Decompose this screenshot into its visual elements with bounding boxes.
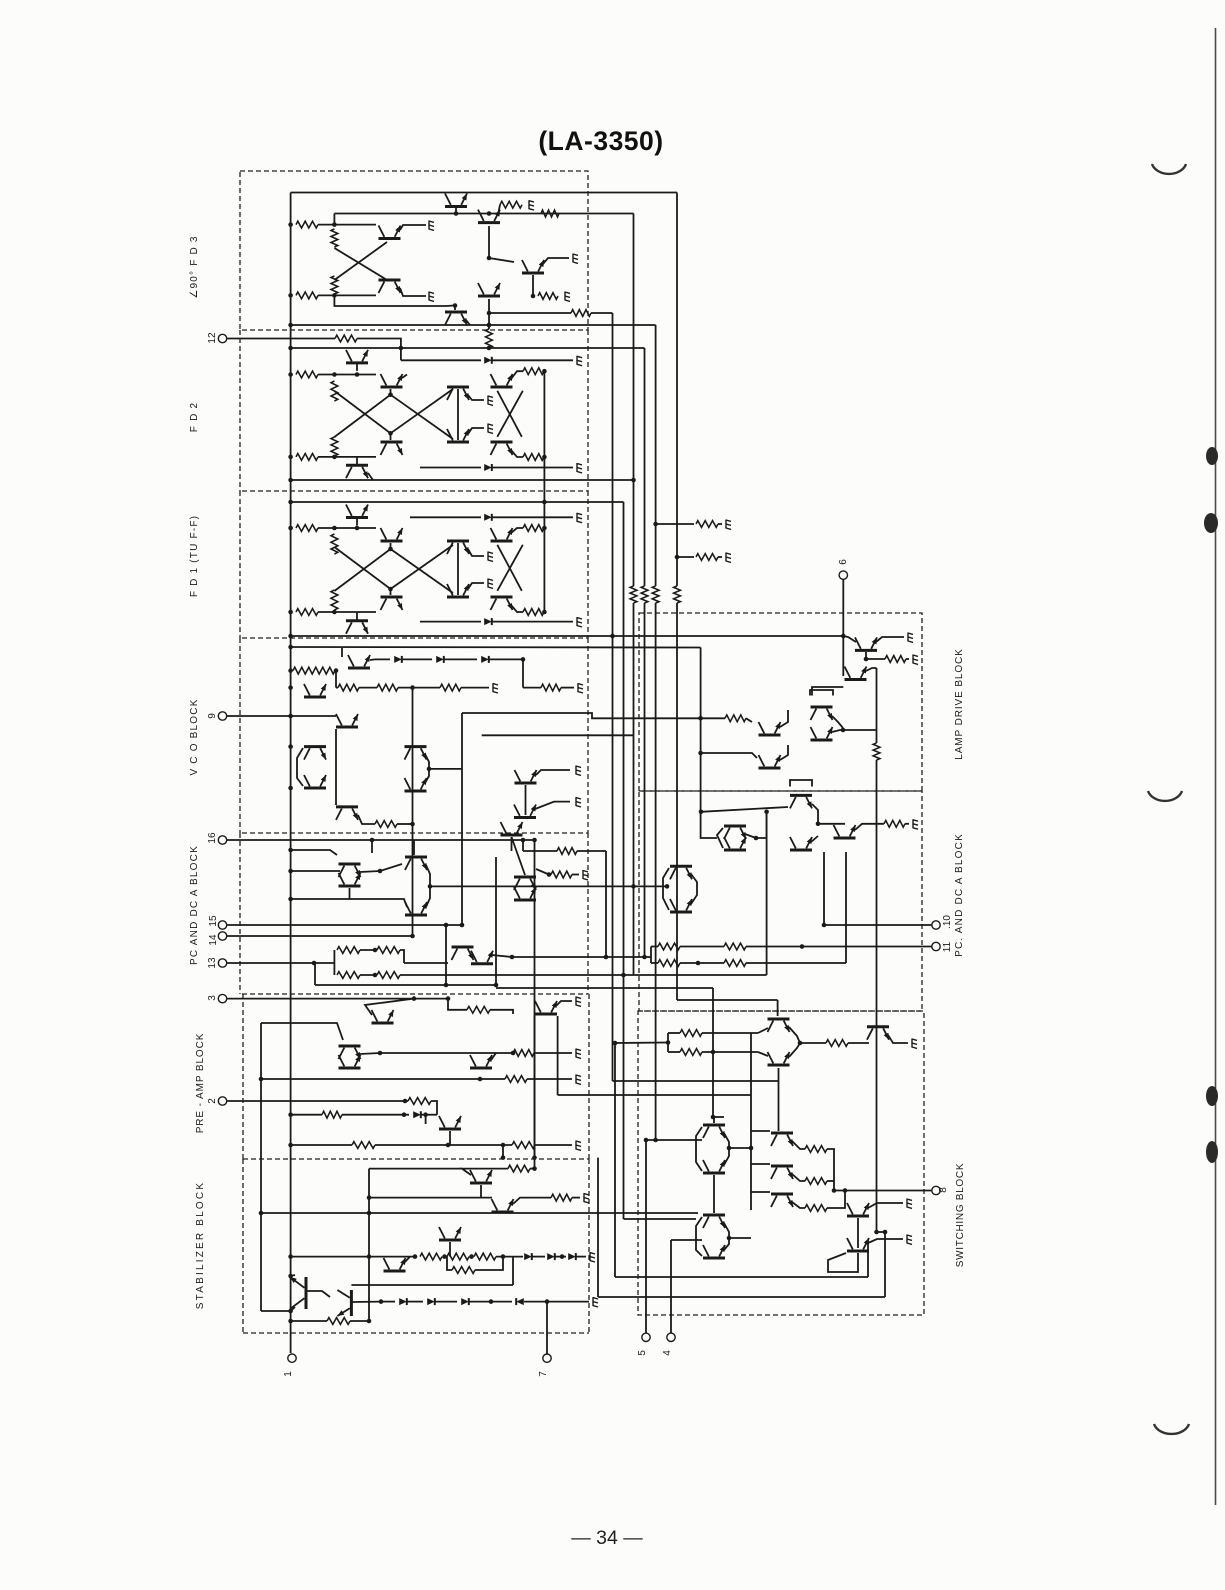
wire Q4 emitter xyxy=(466,320,470,325)
ground xyxy=(907,1235,912,1245)
wire xyxy=(291,1144,352,1146)
transistor Q36 xyxy=(339,873,361,886)
pin label 4 xyxy=(662,1350,673,1356)
junction xyxy=(644,1138,649,1143)
wire cross-couple f xyxy=(497,545,523,591)
wire xyxy=(488,325,490,329)
svg-text:12: 12 xyxy=(207,332,218,344)
junction xyxy=(444,923,449,928)
junction xyxy=(501,1143,506,1148)
wire Q72-Q73 link xyxy=(713,1175,715,1213)
block outline PC-DCA right xyxy=(587,833,589,994)
transistor Q29a xyxy=(405,747,427,760)
wire Q58 collector loop xyxy=(810,690,833,696)
resistor R13 vertical xyxy=(331,437,338,456)
transistor Q60 xyxy=(790,795,812,808)
transistor Q3 xyxy=(379,280,401,293)
wire xyxy=(877,1231,886,1233)
wire xyxy=(811,836,818,842)
wire bus V4 upper xyxy=(644,348,646,586)
resistor R47 xyxy=(474,1253,496,1260)
wire xyxy=(318,611,376,613)
resistor R16 xyxy=(523,454,544,461)
junction xyxy=(727,1236,732,1241)
wire to Q6 base xyxy=(489,258,514,262)
wire xyxy=(375,1144,512,1146)
pin 12 terminal xyxy=(218,334,226,342)
block outline STABILIZER left xyxy=(242,1159,244,1333)
junction xyxy=(545,1299,550,1304)
junction xyxy=(487,256,492,261)
label PC AND DC A BLOCK left xyxy=(189,845,200,965)
wire into Q68 base xyxy=(778,1068,780,1081)
transistor Q54 xyxy=(855,637,877,650)
wire long to right block xyxy=(400,974,767,976)
wire xyxy=(701,717,725,719)
pin 10 terminal xyxy=(932,921,940,929)
wire xyxy=(867,1240,869,1277)
junction xyxy=(446,1143,451,1148)
block outline SWITCHING xyxy=(638,1011,924,1315)
resistor R21 xyxy=(523,525,544,532)
junction xyxy=(749,1146,754,1151)
block outline PC-DCA left xyxy=(239,833,241,994)
wire V1 to switching xyxy=(613,1080,779,1082)
wire Q11 base stub xyxy=(390,389,392,395)
label V.C.O BLOCK xyxy=(189,698,200,775)
wire Q5 emitter xyxy=(498,205,500,215)
wire stub xyxy=(677,556,694,558)
resistor R56 xyxy=(658,943,680,950)
wire V6 to switching xyxy=(677,999,778,1001)
wire xyxy=(572,874,579,876)
junction xyxy=(642,955,647,960)
resistor R55 xyxy=(884,820,905,827)
pin label 7 xyxy=(538,1371,549,1377)
resistor R12 vertical xyxy=(331,381,338,401)
resistor R26 xyxy=(338,684,359,691)
transistor Q18 xyxy=(381,528,403,541)
wire diode row upper xyxy=(401,359,481,361)
block outline PC AND DC A right xyxy=(639,791,922,1011)
scan blob 3 xyxy=(1206,1086,1218,1106)
junction xyxy=(288,293,293,298)
wire xyxy=(645,956,652,958)
pin label 8 xyxy=(938,1187,949,1193)
wire rail y1079 xyxy=(261,1078,480,1080)
wire xyxy=(492,359,573,361)
wire xyxy=(535,802,570,809)
junction xyxy=(874,1230,879,1235)
wire Q19 base stub xyxy=(390,589,392,595)
wire to pin 7 xyxy=(546,1302,548,1354)
wire bus V3 mid xyxy=(633,480,635,586)
wire xyxy=(668,1051,680,1053)
resistor R3 vertical xyxy=(331,276,338,294)
wire VCO to lamp drive xyxy=(462,713,701,718)
junction xyxy=(332,455,337,460)
junction xyxy=(288,1143,293,1148)
junction xyxy=(367,1195,372,1200)
junction xyxy=(542,455,547,460)
pin 11 terminal xyxy=(932,942,940,950)
junction xyxy=(355,372,360,377)
ground xyxy=(576,1049,581,1059)
junction xyxy=(478,1077,483,1082)
wire main left bus xyxy=(290,193,292,1354)
wire xyxy=(365,999,414,1015)
junction xyxy=(312,961,317,966)
wire xyxy=(475,1257,503,1270)
junction xyxy=(388,431,393,436)
wire xyxy=(425,769,429,783)
wire Q37 pair to right block xyxy=(430,885,667,887)
diode D9 xyxy=(524,1253,532,1260)
wire xyxy=(350,1320,369,1322)
junction xyxy=(403,1099,408,1104)
junction xyxy=(487,211,492,216)
wire xyxy=(717,828,723,848)
transistor Q64 xyxy=(834,825,856,838)
wire Q21 emitter to ground xyxy=(468,583,484,589)
ground xyxy=(577,463,582,473)
wire cross-couple a xyxy=(334,248,387,280)
wire xyxy=(360,1053,380,1054)
wire pin11 lead xyxy=(746,946,932,948)
svg-text:STABILIZER BLOCK: STABILIZER BLOCK xyxy=(195,1181,206,1309)
wire xyxy=(905,823,909,825)
wire xyxy=(651,946,658,948)
wire xyxy=(701,835,717,838)
wire xyxy=(398,687,440,689)
wire xyxy=(360,871,380,872)
resistor R27 xyxy=(377,684,398,691)
wire xyxy=(318,294,376,296)
junction xyxy=(727,1146,732,1151)
resistor R35 xyxy=(377,972,400,979)
junction xyxy=(883,1230,888,1235)
transistor Q39 xyxy=(514,877,536,890)
resistor R48 xyxy=(452,1267,475,1274)
wire xyxy=(402,375,407,379)
resistor R45 xyxy=(420,1253,442,1260)
transistor Q30 xyxy=(304,775,326,788)
transistor Q1 xyxy=(445,194,467,214)
ground xyxy=(493,683,498,693)
wire xyxy=(543,528,545,612)
junction xyxy=(521,838,526,843)
transistor Q78 xyxy=(847,1203,869,1216)
ground xyxy=(488,424,493,434)
wire xyxy=(530,1168,535,1170)
junction xyxy=(423,1112,428,1117)
wire xyxy=(511,528,523,533)
wire xyxy=(812,804,818,824)
junction xyxy=(843,1188,848,1193)
svg-text:5: 5 xyxy=(637,1350,648,1356)
wire xyxy=(512,1257,514,1285)
junction xyxy=(711,1115,716,1120)
junction xyxy=(288,897,293,902)
diode D5 xyxy=(394,656,402,663)
resistor R33 xyxy=(377,947,400,954)
ground xyxy=(565,292,570,302)
wire xyxy=(449,1242,451,1257)
block outline STABILIZER bottom xyxy=(243,1332,589,1334)
svg-text:4: 4 xyxy=(662,1350,673,1356)
junction xyxy=(288,323,293,328)
wire xyxy=(718,556,722,558)
transistor Q52 xyxy=(290,1277,306,1309)
wire xyxy=(261,1023,343,1040)
wire to Q2 xyxy=(334,224,376,226)
wire xyxy=(359,687,377,689)
wire FD2 top rail xyxy=(291,347,645,349)
wire xyxy=(827,1191,845,1209)
junction xyxy=(613,1041,618,1046)
block outline VCO left xyxy=(239,638,241,833)
junction xyxy=(521,657,526,662)
wire VCO top rail xyxy=(291,646,701,649)
label LAMP DRIVE BLOCK xyxy=(954,648,965,759)
junction xyxy=(288,714,293,719)
transistor Q51 xyxy=(384,1258,406,1271)
wire xyxy=(758,1052,768,1056)
junction xyxy=(560,1254,565,1259)
junction xyxy=(402,1112,407,1117)
junction xyxy=(666,1040,671,1045)
resistor R43 xyxy=(508,1165,530,1172)
wire node to x751 xyxy=(729,1147,751,1149)
wire Q36 to rail xyxy=(349,888,351,899)
pin label 11 xyxy=(942,941,953,952)
transistor Q59 xyxy=(811,727,833,740)
junction xyxy=(388,392,393,397)
junction xyxy=(332,293,337,298)
resistor R11 xyxy=(296,371,318,378)
wire xyxy=(848,1042,869,1044)
junction xyxy=(288,1319,293,1324)
transistor Q46 xyxy=(470,1055,492,1068)
ground xyxy=(913,655,918,665)
wire xyxy=(444,658,477,660)
transistor Q23 xyxy=(491,597,513,610)
wire xyxy=(513,1198,551,1204)
wire cross-couple e xyxy=(497,545,522,591)
junction xyxy=(494,983,499,988)
wire xyxy=(360,974,377,976)
wire xyxy=(489,312,571,314)
wire bus x412 xyxy=(412,688,414,936)
junction xyxy=(675,555,680,560)
wire xyxy=(469,1301,512,1303)
wire x751 upper xyxy=(750,1033,752,1095)
wire diode row lower xyxy=(420,621,481,623)
wire xyxy=(751,1163,770,1165)
wire xyxy=(358,815,375,824)
svg-text:3: 3 xyxy=(207,995,218,1001)
wire xyxy=(380,864,402,871)
wire xyxy=(724,1133,729,1148)
transistor Q43 xyxy=(372,1010,394,1023)
wire pin12 lead xyxy=(227,338,335,340)
wire Q6 emitter to ground xyxy=(543,258,569,264)
block outline STABILIZER right xyxy=(588,1159,590,1333)
wire xyxy=(651,962,658,964)
wire xyxy=(342,1114,409,1116)
svg-text:SWITCHING BLOCK: SWITCHING BLOCK xyxy=(955,1163,966,1267)
resistor R62 xyxy=(680,1049,702,1056)
wire xyxy=(511,450,523,457)
transistor Q16 xyxy=(491,442,513,455)
pin 3 terminal xyxy=(218,994,226,1002)
wire xyxy=(792,1174,805,1181)
transistor Q12 xyxy=(381,442,403,455)
wire xyxy=(576,1256,586,1258)
wire xyxy=(663,868,669,910)
ground xyxy=(578,683,583,693)
wire xyxy=(680,946,724,948)
wire xyxy=(724,1148,729,1165)
resistor R22 xyxy=(523,609,544,616)
scan crescent middle xyxy=(1148,791,1182,801)
pin 2 terminal xyxy=(218,1097,226,1105)
wire xyxy=(866,658,885,660)
junction xyxy=(288,372,293,377)
transistor Q67 xyxy=(768,1019,790,1032)
resistor R52 xyxy=(725,715,746,722)
wire pin16 to Q37 xyxy=(413,840,415,855)
wire pin3 lead xyxy=(227,998,448,1000)
wire bottom wrap upper xyxy=(615,1276,868,1278)
transistor Q75 xyxy=(771,1133,793,1146)
wire Q12 base stub xyxy=(390,433,392,440)
svg-text:7: 7 xyxy=(538,1371,549,1377)
wire xyxy=(572,1197,580,1199)
wire xyxy=(461,687,489,689)
wire cross-couple b xyxy=(391,395,454,439)
transistor Q45 xyxy=(339,1055,361,1068)
wire xyxy=(780,710,788,727)
resistor R28 xyxy=(440,684,461,691)
wire FD2 bottom rail xyxy=(291,479,634,481)
transistor Q71 xyxy=(703,1125,725,1138)
junction xyxy=(288,222,293,227)
wire bus V3 upper xyxy=(633,214,635,481)
junction xyxy=(288,786,293,791)
wire xyxy=(713,1116,724,1118)
scan crescent bottom xyxy=(1154,1424,1189,1434)
wire xyxy=(407,1301,423,1303)
ground xyxy=(726,520,731,530)
resistor R10 vertical xyxy=(486,329,493,348)
transistor Q53 xyxy=(337,1290,351,1316)
svg-text:8: 8 xyxy=(938,1187,949,1193)
junction xyxy=(631,478,636,483)
resistor R59 xyxy=(724,960,746,967)
wire bus V6 lower xyxy=(676,603,678,1000)
ground xyxy=(576,797,581,807)
wire up into right block xyxy=(766,812,768,975)
wire xyxy=(333,950,335,975)
block boundary F.D.2/F.D.1 xyxy=(242,490,588,492)
transistor Q73 xyxy=(703,1215,725,1228)
diode D13 xyxy=(427,1298,435,1305)
wire xyxy=(357,339,401,361)
ground xyxy=(577,513,582,523)
junction xyxy=(410,822,415,827)
svg-text:PRE - AMP BLOCK: PRE - AMP BLOCK xyxy=(195,1033,206,1134)
wire bus V9 lower xyxy=(876,760,878,1232)
wire xyxy=(522,840,524,851)
junction xyxy=(288,1112,293,1117)
junction xyxy=(446,996,451,1001)
wire bus V5 lower xyxy=(655,603,657,1140)
resistor R8 xyxy=(571,310,591,317)
page number -34- xyxy=(571,1527,643,1549)
wire xyxy=(489,658,523,660)
transistor Q44 xyxy=(339,1046,361,1059)
transistor Q47 xyxy=(439,1116,461,1129)
wire xyxy=(823,852,825,925)
wire Q5 base down xyxy=(488,226,490,258)
junction xyxy=(489,1299,494,1304)
pin 6 terminal xyxy=(839,571,847,579)
junction xyxy=(816,822,821,827)
junction xyxy=(653,522,658,527)
wire FD3 bottom rail xyxy=(291,324,656,326)
wire cross-couple a xyxy=(334,549,390,591)
wire xyxy=(400,950,404,963)
transistor Q79 xyxy=(847,1238,869,1251)
junction xyxy=(604,955,609,960)
pin label 6 xyxy=(838,559,849,565)
wire Q20-Q21 link xyxy=(457,543,459,595)
wire xyxy=(534,1016,536,1158)
ground xyxy=(576,997,581,1007)
ground xyxy=(577,617,582,627)
wire xyxy=(368,473,373,480)
wire bus x496 xyxy=(495,857,497,985)
wire xyxy=(360,949,377,951)
pin label 1 xyxy=(283,1371,294,1377)
wire xyxy=(843,729,877,731)
transistor Q62 xyxy=(724,837,746,850)
wire xyxy=(421,1114,437,1116)
junction xyxy=(487,346,492,351)
wire xyxy=(291,870,340,872)
resistor R6 inline xyxy=(541,210,559,217)
diode D7 xyxy=(481,656,489,663)
ground xyxy=(577,356,582,366)
wire pin14 lead xyxy=(227,935,413,937)
wire bus x535 xyxy=(534,840,536,1158)
wire xyxy=(318,456,376,458)
wire xyxy=(351,1284,513,1286)
block boundary VCO/PC-DCA xyxy=(242,832,588,834)
junction xyxy=(259,1077,264,1082)
svg-text:14: 14 xyxy=(208,934,219,946)
resistor R15 xyxy=(523,368,544,375)
wire bus x462 xyxy=(461,713,463,925)
wire xyxy=(532,1256,545,1258)
pin 9 terminal xyxy=(218,712,226,720)
junction xyxy=(399,346,404,351)
transistor Q38 xyxy=(405,902,427,915)
wire xyxy=(491,1053,496,1060)
label angle-90 F.D.3 xyxy=(189,235,200,298)
wire xyxy=(792,1141,805,1149)
